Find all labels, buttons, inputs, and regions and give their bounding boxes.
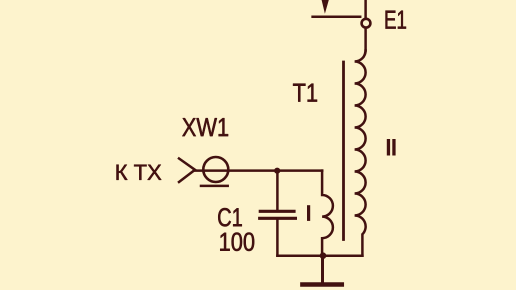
ground [302,282,341,287]
transformer T1 winding II [355,51,366,256]
wire: top lead into terminal E1 [364,0,367,18]
label I (winding I) [307,205,310,221]
label E1 [386,11,406,29]
connector XW1 pin (chevron) [179,159,195,183]
transformer T1 core [342,62,345,240]
capacitor C1 bottom plate [260,217,296,220]
capacitor C1 top plate [260,210,294,213]
junction dot at C1 top [274,168,280,174]
connector XW1 body (circle) [203,157,228,182]
transformer T1 winding I [322,171,333,256]
label C1 [218,208,242,226]
label 100 [220,233,254,251]
antenna arrow [322,0,329,14]
wire: XW1 to winding I / C1 (top horizontal) [194,169,322,172]
antenna bar [313,16,361,19]
label II (winding II) [387,139,390,156]
label XW1 [182,118,228,136]
wire: E1 to winding II [364,29,367,51]
capacitor C1 bottom lead [276,220,279,256]
connector XW1 shield tail [201,185,228,188]
junction dot at ground node [320,252,327,259]
wire: ground lead [321,256,324,283]
capacitor C1 top lead [276,171,279,210]
label К ТХ [117,165,162,180]
wire: bottom bus [277,254,362,257]
label T1 [293,84,317,102]
terminal E1 (circle) [362,19,371,28]
